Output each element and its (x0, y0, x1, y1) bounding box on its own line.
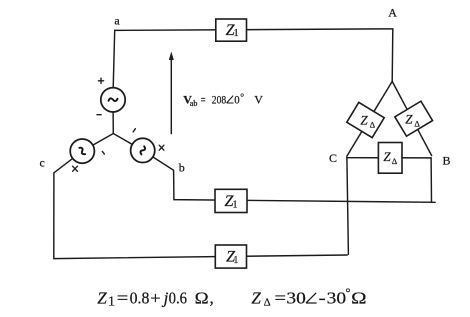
svg-text:0.6: 0.6 (169, 288, 187, 307)
svg-text:=: = (201, 92, 206, 106)
svg-text:B: B (443, 153, 451, 167)
svg-text:A: A (388, 6, 397, 20)
svg-text:Z: Z (251, 288, 261, 307)
svg-text:Ω: Ω (351, 288, 366, 307)
svg-text:V: V (254, 92, 263, 106)
svg-text:c: c (40, 155, 45, 169)
svg-text:208: 208 (212, 92, 226, 106)
svg-text:=: = (275, 288, 287, 307)
svg-text:Δ: Δ (264, 297, 271, 309)
svg-text:-: - (319, 288, 326, 307)
svg-text:b: b (179, 160, 185, 174)
svg-text:Z: Z (97, 288, 107, 307)
svg-text:=: = (117, 288, 129, 307)
svg-text:30: 30 (286, 288, 306, 307)
svg-text:°: ° (345, 285, 350, 300)
svg-text:j: j (162, 288, 169, 307)
svg-text:C: C (329, 151, 337, 165)
svg-text:a: a (114, 13, 120, 27)
svg-text:1: 1 (108, 295, 115, 310)
svg-text:ab: ab (190, 99, 198, 108)
svg-text:30: 30 (327, 288, 347, 307)
svg-text:Ω: Ω (195, 288, 209, 307)
svg-text:,: , (210, 288, 214, 307)
svg-text:0.8: 0.8 (130, 288, 150, 307)
svg-text:+: + (150, 288, 160, 307)
svg-text:0: 0 (234, 92, 239, 106)
svg-text:°: ° (240, 93, 244, 104)
